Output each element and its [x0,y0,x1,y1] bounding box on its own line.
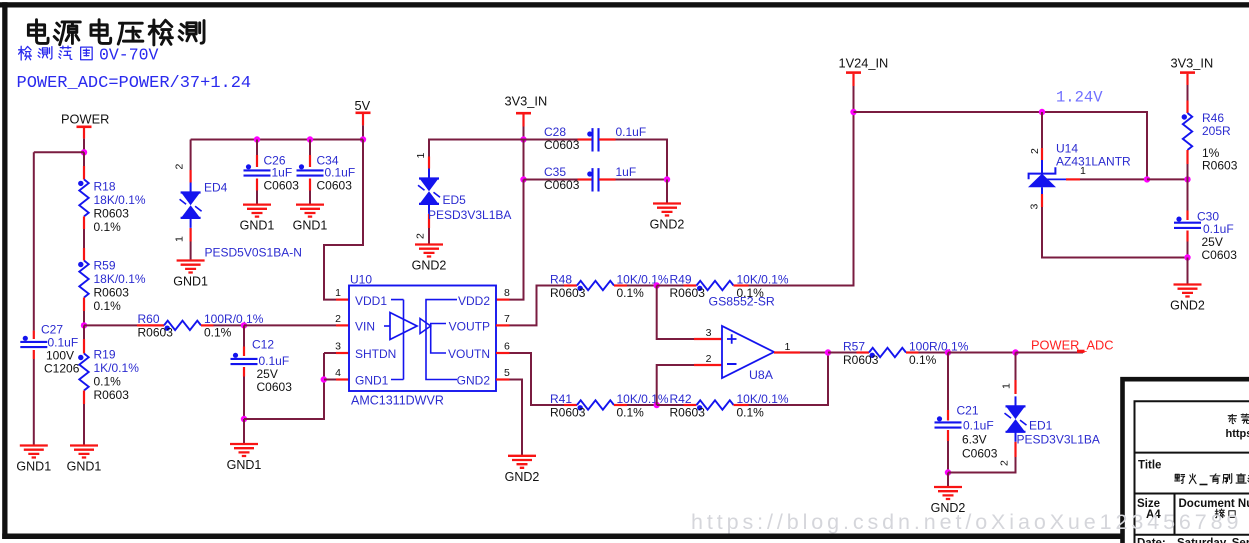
wire junction to R49 [657,285,684,287]
pin U14.1 [1066,178,1080,180]
svg-text:100V: 100V [46,349,74,363]
wire U14 pin3 to C30 ground row [1042,207,1188,258]
sheet border top [0,2,1249,7]
title block row divider 2 [1135,493,1249,495]
junction R46 C30 node [1184,176,1190,182]
svg-text:C0603: C0603 [317,178,353,192]
svg-text:VDD1: VDD1 [355,294,387,308]
pin U14.2 [1041,148,1043,160]
svg-text:VIN: VIN [355,320,375,334]
pin C35.2 [599,178,616,180]
ground GND1 under C34 [293,205,328,233]
svg-text:100R/0.1%: 100R/0.1% [909,339,969,353]
wire opamp output to junction [800,352,828,354]
svg-text:0.1%: 0.1% [909,353,937,367]
wire junction to C27 branch [34,151,84,153]
pin C12.2 [243,367,245,377]
svg-text:GND2: GND2 [1170,299,1205,313]
wire to ED1 node [948,352,1016,354]
port 3V3_IN left [505,93,548,126]
wire R42 feedback to opamp output [749,353,829,406]
pin R41.2 [614,404,627,406]
svg-text:2: 2 [174,164,186,170]
pin C27.2 [33,350,35,359]
svg-text:5V: 5V [355,98,371,113]
svg-text:10K/0.1%: 10K/0.1% [617,392,669,406]
svg-text:R59: R59 [94,259,116,273]
svg-text:8: 8 [504,287,510,299]
svg-text:GND1: GND1 [16,460,51,474]
svg-text:3: 3 [706,327,712,339]
svg-text:0.1uF: 0.1uF [963,418,994,432]
pin U8A.1 [774,351,800,353]
label R57 [843,339,969,367]
capacitor C34 [297,164,324,175]
svg-text:C0603: C0603 [962,446,998,460]
TVS diode ED1 [1005,396,1027,441]
junction 3V3 rail [520,136,526,142]
label R46 [1202,111,1238,172]
wire C12 node to GND1 [243,419,245,444]
pin R48.1 [564,284,577,286]
title block size divider [1174,494,1176,535]
capacitor C35 [587,168,598,191]
wire to C35 [524,179,578,181]
pin U10.7 [496,324,510,326]
svg-text:POWER_ADC=POWER/37+1.24: POWER_ADC=POWER/37+1.24 [17,74,252,93]
svg-text:AMC1311DWVR: AMC1311DWVR [351,394,444,408]
sheet title text 电源电压检测 [28,20,204,45]
capacitor C21 [935,416,962,427]
wire C12 stem [243,325,245,346]
svg-text:GND2: GND2 [505,470,540,484]
pin R19.2 [83,391,85,405]
pin C26.1 [256,155,258,167]
wire POWER port to junction [83,139,85,153]
port bar POWER [77,126,92,129]
wire ED4 to GND1 [190,242,192,261]
pin C34.1 [309,155,311,167]
svg-text:5: 5 [504,367,510,379]
pin ED4.2 [190,170,192,183]
svg-text:10K/0.1%: 10K/0.1% [617,272,669,286]
pin R46.1 [1186,101,1188,114]
subtitle 检测范围0V-70V [19,46,159,65]
svg-text:GND2: GND2 [457,374,491,388]
title block inner box [1135,401,1249,543]
pin R59.1 [83,248,85,261]
port POWER_ADC [1031,337,1113,352]
wire R46 to node [1187,164,1189,179]
pin R57.1 [857,351,870,353]
ground GND2 under ED5 [412,245,447,273]
svg-text:R0603: R0603 [94,388,130,402]
junction U10 pin4 node [321,376,327,382]
title block company 东莞 [1228,414,1249,424]
wire caps ground node to GND2 [666,180,668,204]
pin C34.2 [309,179,311,191]
wire junction down to R19 [83,325,85,339]
port 5V [355,98,371,126]
label C34 [317,154,356,193]
svg-text:Saturday, Sep: Saturday, Sep [1177,538,1249,543]
capacitor C28 [587,128,598,151]
svg-text:205R: 205R [1202,124,1231,138]
svg-text:C0603: C0603 [544,178,580,192]
svg-text:C0603: C0603 [264,178,300,192]
svg-text:1.24V: 1.24V [1056,89,1103,107]
wire 3V3_IN port to rail junction [523,127,525,140]
capacitor C12 [231,353,258,364]
op-amp U8A [722,326,774,378]
svg-text:0V-70V: 0V-70V [99,46,159,65]
svg-text:C0603: C0603 [544,138,580,152]
pin U8A.3 [694,338,722,340]
label C35 [544,165,636,192]
svg-text:R0603: R0603 [670,405,706,419]
junction caps ground node [664,176,670,182]
port bar 3V3_IN left [516,112,531,115]
svg-text:PESD3V3L1BA: PESD3V3L1BA [428,208,511,222]
junction 1V24 node [850,109,856,115]
pin U10.2 [336,324,349,326]
pin U8A.2 [694,364,722,366]
svg-text:C35: C35 [544,165,566,179]
pin R42.2 [734,404,749,406]
wire U14 pin1 to 1.24V node [1080,178,1147,180]
wire to POWER_ADC port [1016,352,1084,354]
svg-text:SHTDN: SHTDN [355,347,396,361]
port 1V24_IN [839,55,889,86]
pin R41.1 [564,404,577,406]
pin ED1.2 [1014,442,1016,457]
wire to U10 pin4 [324,379,336,381]
pin U10.3 [336,352,349,354]
wire rail to C28 [524,139,578,141]
capacitor C27 [20,336,47,347]
junction U14 ref tap [1039,109,1045,115]
svg-text:0.1%: 0.1% [737,405,765,419]
wire R49 to 1V24 riser [749,112,854,286]
label C28 [544,125,646,152]
wire R57 to C21 node [919,352,949,354]
svg-text:PESD5V0S1BA-N: PESD5V0S1BA-N [205,246,302,260]
svg-text:0.1uF: 0.1uF [48,336,79,350]
svg-text:1: 1 [335,287,341,299]
svg-text:R41: R41 [550,392,572,406]
wire 3V3_IN to R46 [1187,85,1189,101]
svg-text:C12: C12 [252,338,274,352]
resistor R19 [78,354,89,391]
pin U10.6 [496,352,510,354]
ground GND1 under ED4 [173,261,208,289]
svg-text:Document Nu: Document Nu [1179,498,1249,510]
wire C30 to ground row [1187,242,1189,258]
svg-text:0.1uF: 0.1uF [1203,222,1234,236]
wire C34 to GND1 [309,191,311,205]
pin R60.2 [201,324,214,326]
svg-text:GND1: GND1 [240,219,275,233]
svg-text:C0603: C0603 [257,380,293,394]
wire C26 stem top [256,140,258,156]
wire C28 to GND corner [616,140,668,180]
wire ground node to U10 pin3/4 [244,353,324,419]
ground GND1 under R19 [67,446,102,474]
wire pin6 down to R41 row [510,353,565,405]
svg-text:https: https [1226,428,1249,440]
junction VIN node [241,322,247,328]
label C26 [264,154,300,193]
pin C28.1 [578,138,593,140]
port bar 1V24_IN [846,71,861,74]
svg-text:VOUTN: VOUTN [448,347,490,361]
wire 3V3 down to C35 row [523,140,525,180]
svg-text:7: 7 [504,313,510,325]
label R59 [94,259,146,314]
shunt reference U14 [1028,160,1066,194]
pin ED1.1 [1014,380,1016,394]
svg-text:R49: R49 [670,272,692,286]
svg-text:0.1%: 0.1% [204,326,232,340]
svg-text:3: 3 [335,341,341,353]
svg-text:1: 1 [785,341,791,353]
pin R42.1 [684,404,697,406]
TVS diode ED5 [418,169,440,214]
junction C21 node [945,349,951,355]
junction opamp plus node [654,282,660,288]
wire R19 to GND1 [83,404,85,446]
junction 1.24V corner [1144,176,1150,182]
wire rail to ED5 [429,140,524,157]
wire 1V24 horizontal [854,112,1148,180]
svg-text:GND2: GND2 [650,218,685,232]
junction opamp output node [825,349,831,355]
svg-text:R0603: R0603 [670,286,706,300]
op-amp U10 isolation amplifier body [349,286,496,392]
ground GND1 under C12 [227,444,262,472]
svg-text:POWER: POWER [61,112,109,127]
svg-text:2: 2 [999,460,1011,466]
title block row divider 1 [1135,452,1249,454]
wire to R57 [828,352,857,354]
label R41 [550,392,669,420]
title block row divider 3 [1135,534,1249,536]
pin R49.1 [684,284,697,286]
svg-text:GND1: GND1 [173,275,208,289]
svg-text:3: 3 [1029,204,1041,210]
label R60 [138,312,264,340]
label R19 [94,348,140,403]
svg-text:6.3V: 6.3V [962,432,987,446]
wire VIN node to U10 pin2 [244,324,336,326]
svg-text:0.1%: 0.1% [94,299,122,313]
wire 5V port to rail [362,125,364,139]
junction ED1 node [1012,349,1018,355]
wire C35 to GND junction [616,179,668,181]
svg-text:POWER_ADC: POWER_ADC [1031,337,1113,352]
pin R19.1 [83,339,85,354]
svg-text:10K/0.1%: 10K/0.1% [737,272,789,286]
capacitor C30 [1174,217,1201,228]
junction C30 ground node [1184,254,1190,260]
svg-text:ED1: ED1 [1029,419,1053,433]
label R42 [670,392,789,420]
pin C30.1 [1186,211,1188,221]
resistor R60 [164,321,201,331]
wire plus node to opamp pin3 [657,286,694,340]
wire minus node to opamp pin2 [657,365,694,405]
ground GND2 under C21 [931,487,966,515]
svg-text:C27: C27 [41,323,63,337]
wire C12 to ground junction [243,377,245,420]
wire ground node to GND2 [947,473,949,488]
svg-text:0.1uF: 0.1uF [259,354,290,368]
TVS diode ED4 [180,183,202,228]
wire pin7 up to R48 row [510,286,565,326]
svg-text:R0603: R0603 [94,207,130,221]
svg-text:R0603: R0603 [1202,158,1238,172]
svg-text:0.1%: 0.1% [94,220,122,234]
svg-text:1K/0.1%: 1K/0.1% [94,361,140,375]
svg-text:0.1uF: 0.1uF [616,125,647,139]
svg-text:C0603: C0603 [1202,248,1238,262]
svg-text:ED4: ED4 [204,181,228,195]
svg-text:1V24_IN: 1V24_IN [839,55,889,70]
svg-text:1: 1 [1080,165,1086,177]
svg-text:GND1: GND1 [67,460,102,474]
svg-text:R60: R60 [138,312,160,326]
capacitor C26 [244,164,271,175]
pin U10.1 [336,299,349,301]
svg-text:10K/0.1%: 10K/0.1% [737,392,789,406]
wire C34 stem top [309,140,311,156]
svg-text:U10: U10 [350,273,372,287]
wire ED5 to GND2 [428,228,430,245]
svg-text:C1206: C1206 [44,362,80,376]
pin R57.2 [906,351,919,353]
ground GND2 under C30 [1170,285,1205,313]
svg-text:Title: Title [1138,460,1161,472]
svg-text:0.1%: 0.1% [617,286,645,300]
label C30 [1197,210,1237,262]
svg-text:GND1: GND1 [227,458,262,472]
resistor R18 [78,179,89,216]
junction C21 ED1 ground node [945,469,951,475]
port POWER [61,112,109,139]
wire C27 to GND1 [33,359,35,446]
svg-text:100R/0.1%: 100R/0.1% [204,312,264,326]
wire R48 to junction [627,285,657,287]
resistor R59 [78,261,89,298]
svg-text:4: 4 [335,367,341,379]
svg-text:https://blog.csdn.net/oXiaoXue: https://blog.csdn.net/oXiaoXue123456789 [691,510,1242,534]
pin C26.2 [256,179,258,191]
junction C26 tap [254,136,260,142]
junction C34 tap [307,136,313,142]
pin R48.2 [614,284,627,286]
sheet border bottom [2,534,1123,540]
svg-text:1: 1 [1001,383,1013,389]
svg-text:0.1%: 0.1% [94,375,122,389]
wire to R46 bottom node [1147,178,1188,180]
pin R60.1 [137,324,164,326]
wire junction to R42 [657,404,684,406]
ground GND1 under C26 [240,205,275,233]
pin C12.1 [243,347,245,357]
pin C27.1 [33,331,35,339]
svg-text:R57: R57 [843,339,865,353]
svg-text:R18: R18 [94,180,116,194]
sheet border left [2,2,7,539]
label C12 [252,338,292,394]
svg-text:1: 1 [415,153,427,159]
pin R46.2 [1186,150,1188,164]
svg-text:2: 2 [1029,148,1041,154]
pin C30.2 [1186,231,1188,242]
svg-text:1uF: 1uF [272,165,293,179]
resistor R48 [577,281,614,291]
wire rail to ED4 [190,140,192,171]
port 3V3_IN right [1171,55,1214,85]
pin R59.2 [83,298,85,312]
wire C21 stem [947,353,949,411]
pin C21.2 [947,430,949,441]
svg-text:R0603: R0603 [843,353,879,367]
svg-text:R48: R48 [550,272,572,286]
ground GND2 under U10 pin5 [505,456,540,484]
svg-text:0.1uF: 0.1uF [325,165,356,179]
wire C27 branch vertical [33,152,35,330]
resistor R49 [697,281,734,291]
svg-text:R42: R42 [670,392,692,406]
svg-text:2: 2 [335,313,341,325]
svg-text:ED5: ED5 [443,193,467,207]
wire ED1 to ground node [948,457,1016,473]
svg-text:R0603: R0603 [550,405,586,419]
pin U10.5 [496,378,510,380]
label R18 [94,180,146,235]
pin R18.2 [83,216,85,229]
ground GND1 under C27 [16,446,51,474]
wire to GND2 [1187,258,1189,285]
title block outer thick border [1123,379,1249,543]
svg-text:GS8552-SR: GS8552-SR [709,295,775,309]
junction divider tap [81,322,87,328]
label C21 [957,404,998,461]
svg-text:18K/0.1%: 18K/0.1% [94,272,146,286]
title block title 野火_有刷直流 [1175,474,1249,485]
svg-text:Date:: Date: [1137,538,1166,543]
svg-text:C21: C21 [957,404,979,418]
wire ED1 stem [1015,353,1017,381]
wire 1V24_IN to junction [853,86,855,112]
pin C21.1 [947,410,949,421]
svg-text:GND1: GND1 [293,219,328,233]
wire 3V3 net down to U10 pin8 [510,180,524,300]
svg-text:3V3_IN: 3V3_IN [505,93,548,108]
pin U10.4 [336,378,349,380]
svg-text:AZ431LANTR: AZ431LANTR [1056,154,1131,168]
pin U10.8 [496,299,510,301]
svg-text:25V: 25V [1202,235,1223,249]
svg-text:GND2: GND2 [412,259,447,273]
svg-text:2: 2 [415,233,427,239]
svg-text:PESD3V3L1BA: PESD3V3L1BA [1017,432,1100,446]
resistor R57 [869,348,906,358]
wire 5V rail [191,139,363,141]
wire pin5 to GND2 [510,380,523,456]
svg-text:0.1%: 0.1% [617,405,645,419]
